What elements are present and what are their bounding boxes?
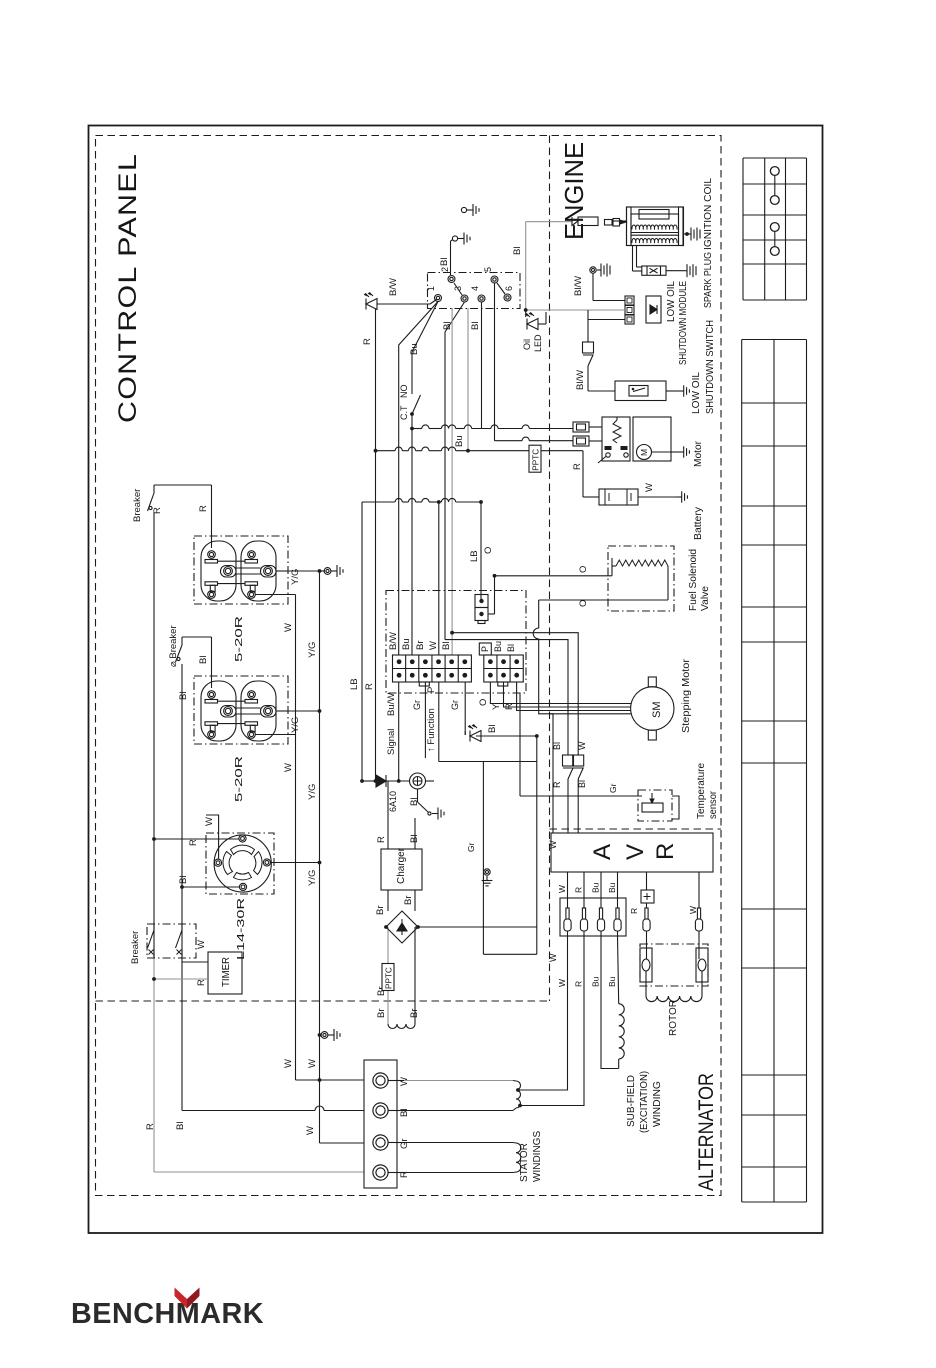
svg-text:Bu: Bu [454,435,465,447]
svg-text:R: R [362,338,373,345]
svg-text:W: W [305,1126,316,1135]
svg-text:Br: Br [403,896,414,906]
svg-text:R: R [188,839,199,846]
svg-text:STATOR: STATOR [519,1143,530,1182]
svg-text:IGNITION COIL: IGNITION COIL [703,178,714,250]
svg-text:W: W [557,979,567,987]
svg-text:W: W [283,763,294,772]
svg-text:W: W [577,741,587,750]
svg-text:Breaker: Breaker [130,931,141,964]
svg-text:BENCHMARK: BENCHMARK [71,1298,264,1330]
svg-text:W: W [196,940,207,949]
svg-text:B/W: B/W [388,632,399,650]
svg-text:B/W: B/W [388,278,399,296]
svg-text:C.T: C.T [399,405,409,420]
svg-text:Gr: Gr [466,842,476,852]
svg-text:W: W [204,817,215,826]
svg-text:R: R [198,505,209,512]
svg-text:W: W [688,906,698,914]
svg-text:Bl: Bl [409,835,420,843]
svg-text:L14-30R: L14-30R [235,897,247,960]
svg-text:Y/G: Y/G [307,642,318,658]
svg-text:Br: Br [415,641,426,651]
svg-text:SM: SM [651,702,663,719]
svg-text:5-20R: 5-20R [233,615,245,662]
svg-text:Bl: Bl [487,725,498,733]
svg-text:Bl: Bl [512,247,523,255]
svg-text:Bl: Bl [399,1109,410,1117]
svg-text:PPTC: PPTC [384,967,393,989]
svg-text:Y/G: Y/G [307,784,318,800]
svg-text:Fuel Solenoid: Fuel Solenoid [688,549,699,611]
svg-text:R: R [574,887,584,893]
svg-text:R: R [572,463,583,470]
svg-text:R: R [376,836,387,843]
svg-text:W: W [548,840,558,849]
svg-text:O: O [578,566,589,573]
svg-text:Br: Br [375,906,386,916]
svg-text:↑ Function: ↑ Function [426,708,437,752]
svg-text:W: W [428,641,439,650]
svg-text:sensor: sensor [708,790,719,819]
svg-text:LB: LB [349,678,360,690]
svg-text:Bl: Bl [409,798,420,806]
svg-text:Br: Br [409,1009,420,1019]
svg-text:Bl: Bl [577,780,587,788]
svg-text:Bl/W: Bl/W [575,370,586,390]
svg-text:W: W [307,1059,318,1068]
svg-text:Bl/W: Bl/W [573,276,584,296]
svg-text:O: O [478,699,489,706]
svg-text:Bl: Bl [175,1122,186,1130]
svg-text:6A10: 6A10 [388,791,398,812]
svg-text:2: 2 [440,267,450,272]
svg-text:Bl: Bl [441,642,452,650]
svg-text:LOW OIL: LOW OIL [691,372,702,414]
svg-text:Bl: Bl [178,876,189,884]
svg-text:W: W [557,885,567,893]
svg-text:W: W [548,953,558,962]
svg-text:Bl: Bl [178,692,189,700]
svg-text:Gr: Gr [450,700,460,710]
svg-text:R: R [364,683,375,690]
svg-text:R: R [652,843,679,860]
svg-text:Bl: Bl [198,656,209,664]
svg-text:Bl: Bl [439,258,450,266]
svg-text:Gr: Gr [399,1138,410,1149]
svg-text:Y/G: Y/G [290,569,301,585]
svg-text:1: 1 [426,286,436,291]
svg-text:LOW OIL: LOW OIL [666,281,677,322]
svg-text:5-20R: 5-20R [233,755,245,802]
svg-text:Bl: Bl [506,644,516,652]
svg-text:O: O [578,600,589,607]
svg-text:PPTC: PPTC [531,449,540,471]
svg-text:Stepping Motor: Stepping Motor [681,658,692,733]
svg-text:V: V [622,844,649,860]
svg-text:NO: NO [399,385,409,399]
svg-text:SUB-FIELD: SUB-FIELD [626,1075,637,1127]
svg-text:WINDING: WINDING [652,1081,663,1127]
svg-text:6: 6 [504,286,514,291]
svg-text:5: 5 [483,267,493,272]
svg-text:Signal: Signal [386,729,397,755]
svg-text:Bu/W: Bu/W [386,693,397,716]
svg-text:Oil: Oil [522,339,532,350]
svg-text:LED: LED [533,334,543,352]
svg-text:SHUTDOWN MODULE: SHUTDOWN MODULE [678,281,689,365]
svg-text:O: O [483,547,494,554]
svg-text:Bu: Bu [591,976,601,987]
svg-text:Bu: Bu [607,882,617,893]
svg-text:Y/G: Y/G [290,717,301,733]
svg-text:Bu: Bu [607,976,617,987]
svg-text:W: W [399,1077,410,1086]
svg-text:R: R [504,703,515,710]
svg-text:Gr: Gr [412,700,422,710]
svg-text:Bu: Bu [401,638,412,650]
svg-text:Motor: Motor [693,440,704,467]
svg-text:Battery: Battery [693,507,704,540]
svg-text:ALTERNATOR: ALTERNATOR [695,1073,718,1191]
svg-text:Br: Br [376,1009,387,1019]
svg-text:Bu: Bu [591,882,601,893]
svg-text:W: W [283,623,294,632]
svg-text:R: R [152,507,163,514]
svg-text:Y/G: Y/G [307,870,318,886]
svg-text:Bl: Bl [442,322,453,330]
svg-text:CONTROL PANEL: CONTROL PANEL [114,153,142,423]
svg-text:Valve: Valve [700,586,711,611]
svg-text:R: R [574,981,584,987]
svg-text:SPARK PLUG: SPARK PLUG [703,252,714,308]
svg-text:Temperature: Temperature [696,763,707,819]
svg-text:W: W [283,1059,294,1068]
svg-text:Gr: Gr [608,783,618,793]
svg-text:WINDINGS: WINDINGS [532,1131,543,1182]
svg-text:Bl: Bl [470,322,481,330]
svg-text:A: A [589,844,616,860]
svg-text:Bu: Bu [493,641,503,652]
svg-text:R: R [196,979,207,986]
svg-text:P: P [426,687,437,693]
svg-text:ROTOR: ROTOR [668,1000,679,1036]
svg-text:Charger: Charger [396,847,407,884]
svg-text:LB: LB [469,550,480,562]
svg-text:4: 4 [470,286,480,291]
svg-text:P: P [480,646,490,652]
svg-text:M: M [639,449,649,456]
svg-text:R: R [145,1123,156,1130]
svg-text:Y: Y [491,703,502,710]
svg-text:R: R [629,908,639,914]
svg-text:W: W [644,483,655,492]
svg-text:Breaker: Breaker [132,489,143,522]
svg-text:Bu: Bu [409,343,420,355]
svg-text:SHUTDOWN SWITCH: SHUTDOWN SWITCH [705,320,716,414]
svg-text:(EXCITATION): (EXCITATION) [639,1071,650,1133]
svg-text:TIMER: TIMER [221,957,232,987]
